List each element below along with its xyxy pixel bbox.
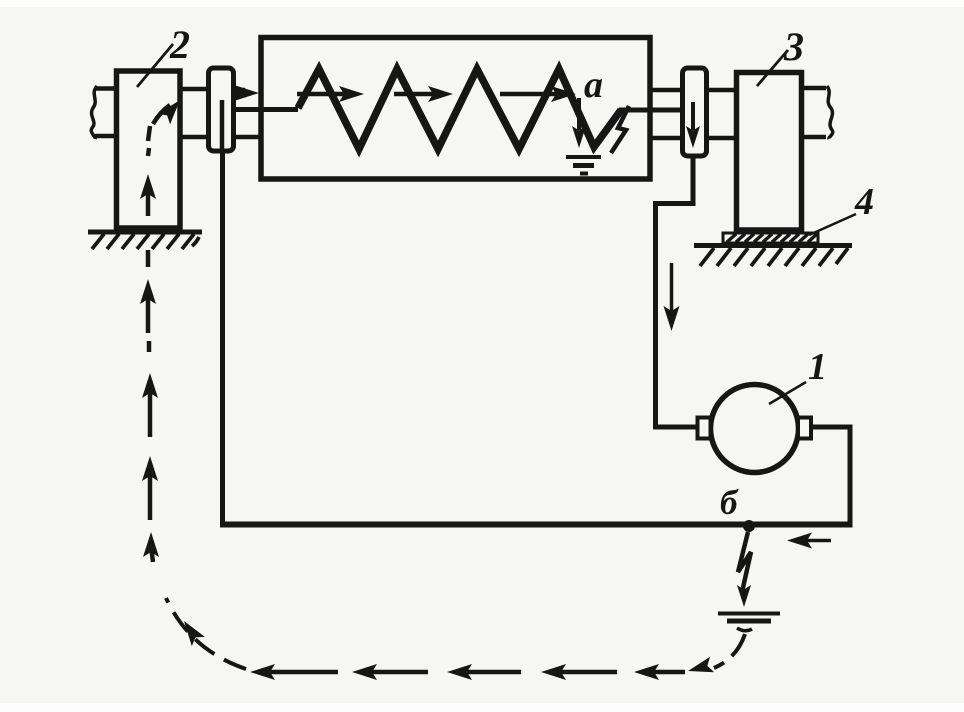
label a (node а) (584, 64, 603, 106)
motor 1 (DC source) (711, 385, 799, 473)
current arrow on bottom wire (787, 533, 831, 549)
shaft stub right with break squiggle (801, 86, 833, 139)
terminal right of motor (798, 418, 811, 439)
flow arrow A1 (297, 86, 364, 102)
eddy current path: dashed curve from earth to return (686, 634, 745, 679)
label b (node б) (720, 483, 739, 522)
arrow down to internal ground (572, 98, 586, 148)
terminal left of motor (698, 418, 711, 439)
label 2 with leader (137, 22, 190, 87)
support block 3 (right pedestal) (737, 73, 802, 231)
brush arrow right (current down) (686, 102, 700, 148)
wire: right bearing down to motor (656, 154, 699, 427)
svg-text:1: 1 (808, 346, 827, 388)
spark lightning from node b to earth (737, 532, 751, 607)
label 4 with leader (809, 181, 874, 235)
spark at coil end (611, 106, 629, 153)
eddy current path: dashed return line with arrows (250, 664, 685, 680)
internal ground symbol (point a) (566, 157, 601, 174)
support block 2 (left pedestal) (117, 71, 181, 228)
svg-text:3: 3 (783, 24, 804, 69)
housing box (inductor enclosure) (261, 38, 650, 180)
shaft between support 2 and left bearing (180, 89, 209, 137)
shaft right bearing to support 3 (706, 90, 737, 138)
eddy current path: dashed vertical with up arrows (140, 95, 186, 562)
svg-text:б: б (720, 483, 739, 522)
coil exit wire (619, 108, 683, 113)
node b junction dot (743, 520, 755, 532)
bearing left (slip ring) (209, 68, 234, 151)
wire: motor right down to return line (811, 427, 850, 524)
label 3 with leader (757, 24, 804, 86)
wire: left bearing down (220, 152, 225, 524)
svg-text:4: 4 (854, 181, 874, 223)
flow arrow A2 (394, 86, 453, 102)
eddy current path: dashed curve up at bottom left (166, 598, 246, 669)
bottom return wire (220, 522, 853, 528)
flow arrow A3 (500, 86, 576, 102)
svg-text:а: а (584, 64, 603, 106)
insulating pad 4 under support 3 (723, 233, 818, 243)
shaft stub left with break squiggle (91, 86, 118, 139)
ground hatching under support 2 (88, 232, 202, 249)
shaft box to right bearing (650, 90, 683, 138)
shaft left bearing to box with rotation arrow (233, 85, 260, 137)
ground hatching under support 3 (694, 246, 852, 267)
earth ground at node b (718, 614, 780, 631)
current arrow down beside wire (664, 263, 680, 331)
bearing right (slip ring) (683, 68, 707, 156)
label 1 with leader (769, 346, 827, 404)
heating coil (zigzag element) (298, 69, 621, 149)
coil feed wire into box (233, 107, 298, 112)
brush contact left (220, 100, 225, 153)
